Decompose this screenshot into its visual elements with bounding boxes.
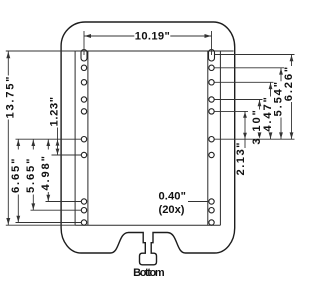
svg-text:Bottom: Bottom (133, 267, 165, 279)
svg-text:2.13": 2.13" (235, 143, 247, 176)
svg-text:6.65": 6.65" (10, 159, 22, 194)
svg-text:0.40": 0.40" (158, 191, 186, 203)
svg-text:4.98": 4.98" (40, 156, 52, 191)
svg-text:1.23": 1.23" (48, 97, 60, 127)
svg-text:5.65": 5.65" (25, 159, 37, 194)
svg-text:(20x): (20x) (159, 204, 185, 216)
svg-text:6.26": 6.26" (283, 67, 295, 102)
svg-text:13.75": 13.75" (4, 77, 16, 119)
svg-text:10.19": 10.19" (135, 31, 170, 43)
